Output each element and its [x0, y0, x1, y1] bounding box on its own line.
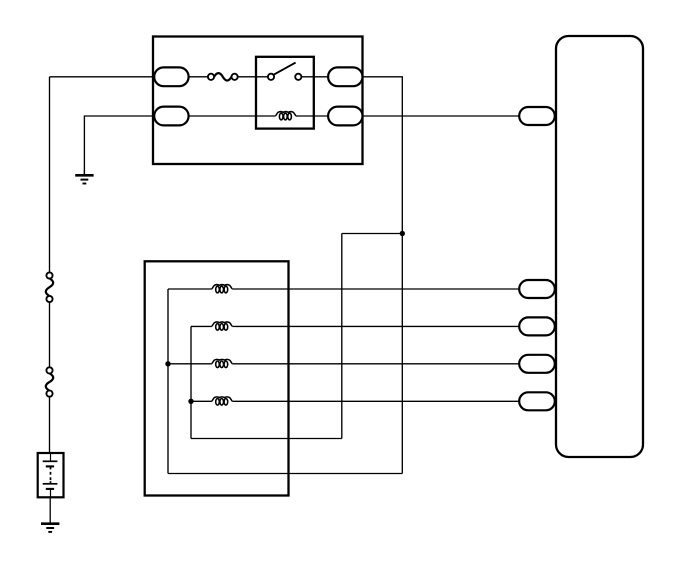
wire: battery positive feed, top-left horizontal: [50, 76, 154, 78]
motor M1 block outline: [145, 261, 289, 495]
wire: block U1 top-right pin over to motor feed vertical: [363, 77, 403, 474]
connector pin: ECU pin 5: [519, 392, 555, 410]
node C junction dot (row 4 tap): [188, 399, 193, 404]
wire: winding row 2: [191, 325, 211, 327]
battery B1 cell plates: [43, 453, 58, 497]
connector pin: ECU pin 2: [519, 280, 555, 298]
node A junction dot: [400, 231, 405, 236]
relay/fuse block U1 outline: [153, 37, 363, 165]
wire: winding row 4: [191, 400, 211, 402]
wire: winding row 3: [168, 363, 211, 365]
inline connector break S2 (lower) on battery feed: [46, 373, 53, 390]
ground below battery B1: [49, 497, 51, 523]
connector pin: ECU pin 3: [519, 317, 555, 335]
wire: left return bus rows 1&3: [167, 289, 169, 474]
ECU / controller block outline: [556, 36, 643, 457]
motor winding L2 (row 1): [211, 285, 232, 289]
fuse F1 (wavy link between terminals): [214, 73, 231, 80]
node B junction dot (row 3 tap): [165, 361, 170, 366]
motor winding L5 (row 4): [211, 397, 232, 401]
connector pin: block U1 top-left: [154, 67, 188, 86]
inline connector break S1 (upper) on battery feed: [46, 278, 53, 296]
motor winding L4 (row 3): [211, 359, 232, 363]
relay K1 inner box: [256, 57, 314, 129]
connector pin: block U1 bottom-left: [154, 107, 188, 126]
connector pin: ECU pin 4: [519, 355, 555, 373]
relay K1 switch contact left: [268, 74, 274, 80]
wire: winding row 1: [168, 288, 211, 290]
relay K1 switch contact right: [295, 74, 301, 80]
wire: bottom horizontal return (outer): [168, 473, 402, 475]
ground: chassis ground top-left: [83, 170, 85, 175]
wire: inner return bus rows 2&4: [190, 326, 192, 438]
relay K1 switch blade: [274, 63, 296, 75]
relay K1 coil L1: [275, 112, 296, 116]
wire: relay block lower-left to chassis ground: [84, 116, 154, 175]
connector pin: ECU pin 1: [519, 107, 555, 125]
connector pin: block U1 top-right: [328, 67, 362, 86]
wire: left vertical from battery to relay block (segmented by breaks): [49, 77, 51, 273]
wire: block U1 bottom-right pin to ECU pin 1: [363, 115, 520, 117]
battery B1 box: [38, 453, 64, 497]
motor winding L3 (row 2): [211, 322, 232, 326]
wire: branch at node A to second winding pair: [342, 233, 403, 235]
wire: lower horizontal return (inner): [191, 438, 342, 440]
wire: relay coil row inside block: [189, 115, 276, 117]
wire: fuse row inside block: [189, 76, 208, 78]
connector pin: block U1 bottom-right: [328, 107, 362, 126]
